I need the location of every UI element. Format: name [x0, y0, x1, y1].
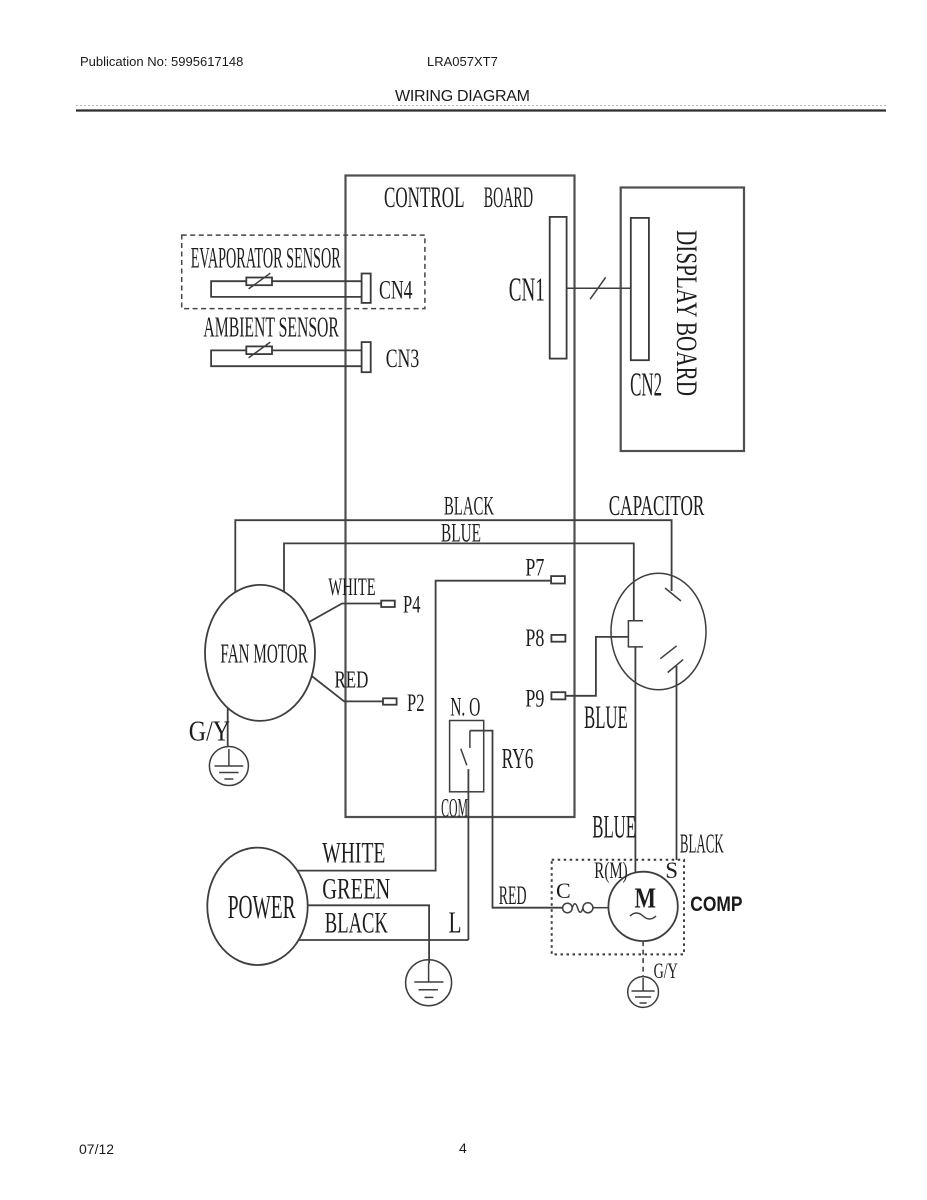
svg-text:DISPLAY BOARD: DISPLAY BOARD [670, 230, 703, 396]
svg-text:L: L [449, 905, 462, 940]
svg-text:RED: RED [335, 668, 369, 694]
svg-text:GREEN: GREEN [322, 873, 390, 906]
svg-text:CN2: CN2 [630, 367, 662, 404]
terminal P9 [551, 692, 565, 699]
wire BLACK power to COM junction [299, 939, 469, 941]
svg-text:BLACK: BLACK [680, 829, 724, 859]
wire BLACK fan-capacitor [235, 520, 671, 592]
bus slash on CN1-CN2 wire [590, 277, 606, 299]
connector CN4 [362, 274, 371, 303]
wire fan motor to ground [227, 708, 229, 747]
svg-text:POWER: POWER [228, 889, 296, 926]
svg-text:WHITE: WHITE [322, 837, 385, 870]
svg-text:P7: P7 [525, 555, 544, 582]
svg-text:FAN MOTOR: FAN MOTOR [220, 639, 307, 669]
wire BLUE fan-capacitor [284, 543, 634, 620]
evaporator sensor dashed box [182, 235, 425, 309]
svg-text:P9: P9 [525, 686, 544, 713]
svg-text:S: S [665, 858, 678, 883]
terminal P7 [551, 576, 565, 583]
ground symbol fan [209, 747, 248, 786]
svg-text:RY6: RY6 [502, 744, 534, 775]
svg-text:BLUE: BLUE [441, 519, 481, 548]
connector CN1 [550, 217, 567, 359]
svg-text:C: C [556, 878, 571, 903]
svg-text:COM: COM [441, 794, 468, 823]
wire CN1 to CN2 [567, 287, 631, 289]
evaporator sensor wire loop [211, 281, 362, 297]
connector CN3 [362, 342, 371, 372]
wire BLUE P9 to capacitor [565, 637, 628, 696]
relay fixed contact stub [469, 731, 471, 748]
wire WHITE power to P7 [297, 581, 551, 871]
svg-text:G/Y: G/Y [654, 958, 678, 983]
svg-text:N. O: N. O [450, 693, 480, 722]
ambient sensor wire loop [211, 350, 362, 366]
wire relay COM to L [467, 769, 469, 940]
svg-text:CN3: CN3 [386, 344, 420, 373]
svg-text:4: 4 [459, 1140, 467, 1156]
wire BLUE capacitor to compressor [634, 647, 636, 873]
svg-text:BOARD: BOARD [484, 181, 533, 214]
fan motor B1 [205, 585, 315, 721]
ground symbol power [406, 960, 452, 1006]
svg-text:BLACK: BLACK [325, 907, 388, 940]
wire BLACK capacitor to compressor S [676, 666, 678, 860]
ambient thermistor RT2 [246, 346, 272, 354]
connector CN2 [631, 218, 649, 360]
control board U1 outline [346, 176, 575, 818]
svg-text:P2: P2 [407, 690, 425, 717]
svg-text:AMBIENT SENSOR: AMBIENT SENSOR [203, 313, 339, 344]
svg-text:CN1: CN1 [509, 272, 545, 309]
terminal P8 [551, 635, 565, 642]
wire WHITE fan to P4 [309, 604, 381, 623]
svg-text:BLUE: BLUE [584, 700, 628, 736]
svg-text:P8: P8 [525, 625, 544, 652]
header publication text [80, 54, 530, 105]
svg-text:EVAPORATOR SENSOR: EVAPORATOR SENSOR [191, 242, 341, 275]
svg-text:CN4: CN4 [379, 275, 413, 304]
compressor dashed box [552, 860, 684, 955]
svg-text:G/Y: G/Y [189, 717, 230, 748]
svg-text:CONTROL: CONTROL [384, 181, 465, 214]
svg-text:WIRING DIAGRAM: WIRING DIAGRAM [395, 88, 530, 105]
motor tilde [630, 913, 656, 919]
svg-text:BLACK: BLACK [444, 492, 494, 521]
header dotted rule [76, 105, 886, 107]
header rule [76, 109, 886, 111]
svg-text:Publication No: 5995617148: Publication No: 5995617148 [80, 54, 243, 69]
wire RED fan to P2 [312, 676, 383, 701]
svg-text:COMP: COMP [690, 893, 742, 916]
svg-text:CAPACITOR: CAPACITOR [609, 490, 705, 522]
svg-text:M: M [635, 884, 657, 915]
wire GREEN power to ground [308, 905, 429, 963]
relay switch blade [461, 749, 467, 766]
capacitor common terminal bracket [628, 621, 643, 647]
evaporator thermistor RT1 [246, 278, 272, 286]
svg-text:07/12: 07/12 [79, 1141, 114, 1157]
capacitor plate tick (HERM) [665, 588, 681, 601]
wire relay N.O to RED [470, 731, 563, 908]
svg-text:RED: RED [499, 881, 527, 910]
overload protector circles [563, 903, 608, 913]
compressor motor M1 [608, 872, 677, 941]
svg-text:LRA057XT7: LRA057XT7 [427, 54, 498, 69]
terminal P4 [381, 601, 395, 607]
ground symbol compressor [628, 977, 659, 1008]
display board outline [621, 188, 744, 452]
capacitor C1 body [611, 573, 706, 690]
wire compressor to ground (dashed) [642, 941, 644, 977]
svg-text:WHITE: WHITE [328, 574, 375, 601]
svg-text:R(M): R(M) [594, 858, 627, 883]
terminal P2 [383, 698, 397, 704]
svg-text:BLUE: BLUE [592, 810, 636, 846]
relay RY6 box [450, 721, 484, 792]
capacitor plate ticks (FAN/S) [660, 646, 676, 659]
power plug P1 [207, 848, 307, 965]
svg-text:P4: P4 [403, 592, 421, 619]
